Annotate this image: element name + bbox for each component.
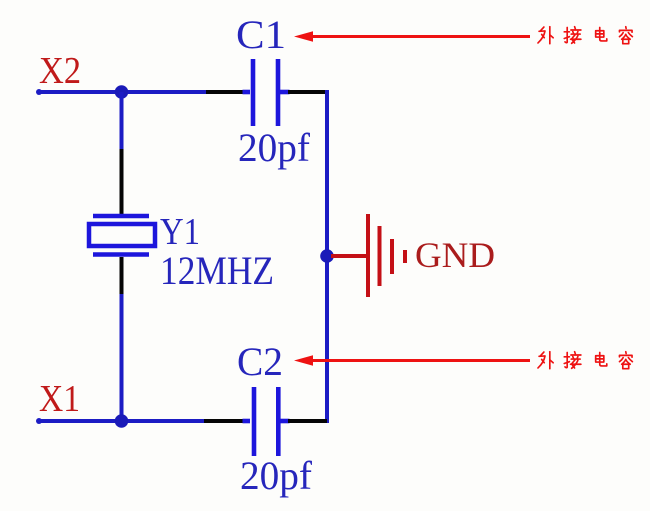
designator C1 <box>236 12 286 57</box>
node label X2 <box>39 50 81 92</box>
node label X1 <box>39 378 80 420</box>
value 12MHZ <box>160 248 274 293</box>
junction: X2 node dot <box>115 85 129 99</box>
annotation arrow (top, points at C1) <box>294 31 530 41</box>
annotation arrow (bottom, points at C2) <box>294 355 530 365</box>
wire: C1 right pin to right bus (black) <box>288 90 327 94</box>
svg-text:GND: GND <box>415 235 495 275</box>
svg-text:X1: X1 <box>39 378 80 420</box>
capacitor C2 (plates + pin stubs) <box>243 387 290 456</box>
annotation text 外接电容 (top) <box>538 27 632 44</box>
junction: X1 node dot <box>115 414 129 428</box>
wire: crystal top lead (black) <box>120 149 124 214</box>
wire: C2 right pin to right bus (black) <box>288 419 327 423</box>
wire: X1 port lead (blue, bottom left) <box>36 418 205 424</box>
svg-text:Y1: Y1 <box>160 211 200 253</box>
designator C2 <box>237 339 283 384</box>
designator Y1 <box>160 211 200 253</box>
net label GND <box>415 235 495 275</box>
svg-text:20pf: 20pf <box>238 125 311 170</box>
wire: left branch upper (blue, below X2 junction) <box>120 92 124 150</box>
ground GND symbol (rotated bars) <box>331 214 405 297</box>
wire: top segment to C1 left pin (black) <box>206 90 246 94</box>
svg-text:C1: C1 <box>236 12 286 57</box>
svg-text:20pf: 20pf <box>240 453 313 498</box>
svg-text:X2: X2 <box>39 50 81 92</box>
svg-text:C2: C2 <box>237 339 283 384</box>
wire: X2 port lead (blue, top left) <box>36 89 207 95</box>
value 20pf (C1) <box>238 125 311 170</box>
svg-text:12MHZ: 12MHZ <box>160 248 274 293</box>
wire: crystal bottom lead (black) <box>120 257 124 295</box>
wire: bottom segment to C2 left pin (black) <box>204 419 246 423</box>
annotation text 外接电容 (bottom) <box>538 352 632 369</box>
capacitor C1 (plates + pin stubs) <box>243 59 290 126</box>
wire: left branch lower (blue, down to X1 node) <box>120 294 124 421</box>
wire: right bus (blue vertical) <box>325 90 329 423</box>
crystal Y1 (plates + body) <box>89 216 155 255</box>
junction: GND node dot <box>320 249 334 263</box>
value 20pf (C2) <box>240 453 313 498</box>
